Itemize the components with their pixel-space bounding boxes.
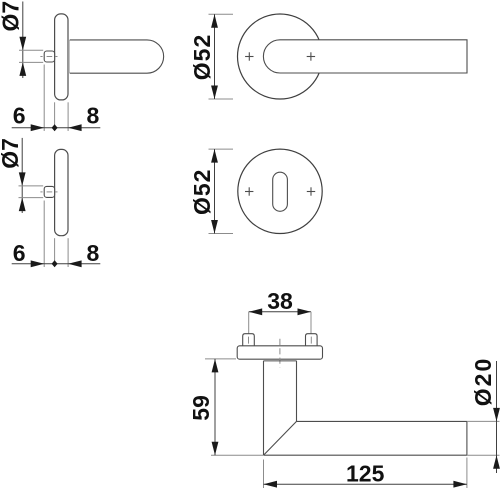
neck right edge (view 5) [296, 361, 298, 422]
svg-text:125: 125 [346, 460, 385, 486]
spindle centre line dashes (view 1) [40, 56, 57, 58]
dimension Ø20 extension lines [467, 421, 500, 455]
dimension Ø52 (view 4) arrowheads [211, 149, 218, 233]
screw cross mark right (view 4) [307, 187, 315, 195]
dimension 59 dim line [214, 359, 216, 455]
screw cross mark left (view 4) [245, 187, 253, 195]
dimension 59 extension line bottom [211, 454, 263, 456]
dimension Ø52 (view 4) label [189, 169, 215, 215]
dimension text 6 (view 1) [13, 103, 26, 129]
svg-text:59: 59 [188, 395, 214, 421]
handle grip side view (view 1) [70, 40, 164, 73]
svg-text:6: 6 [13, 103, 26, 129]
centre line through plate (view 5) [279, 339, 281, 367]
grip top edge (view 5) [297, 420, 467, 422]
dimension Ø52 (view 4) dim line [214, 149, 216, 233]
dimension 6/8 (view 1) extension lines [44, 65, 68, 132]
dimension text 8 (view 2) [87, 240, 100, 266]
dimension Ø7 (view 1) dim line [22, 2, 24, 79]
svg-text:Ø7: Ø7 [0, 1, 23, 32]
dimension Ø7 (view 2) label [0, 138, 23, 169]
svg-text:Ø7: Ø7 [0, 138, 23, 169]
dimension Ø52 (view 4) extension lines [209, 149, 234, 233]
spindle square (view 1) [44, 51, 54, 62]
dimension Ø20 dim line [496, 361, 498, 473]
dimension 38 dim line [249, 311, 311, 313]
svg-text:8: 8 [87, 103, 100, 129]
screw boss right (view 5) [306, 334, 318, 346]
dimension Ø20 arrowheads [493, 408, 500, 469]
dimension Ø52 (view 3) dim line [214, 14, 216, 99]
rose side view (view 2) [55, 149, 68, 235]
rose plate edge view (view 5) [237, 346, 322, 359]
dimension text 125 [346, 460, 385, 486]
dimension 59 arrowheads [212, 359, 219, 455]
dimension 125 dim line [264, 483, 467, 485]
dimension 38 arrowheads [249, 308, 311, 315]
dimension 38 extension lines [249, 312, 311, 334]
dimension Ø7 (view 2) dim line [21, 138, 23, 213]
spindle centre line dashes (view 2) [40, 191, 57, 193]
dimension text 8 (view 1) [87, 103, 100, 129]
handle neck shading (view 1) [68, 40, 70, 73]
dimension Ø7 (view 2) arrowheads [19, 172, 26, 211]
svg-text:6: 6 [13, 240, 26, 266]
dimension 6/8 (view 1) dim line [12, 127, 101, 129]
neck lip line (view 5) [263, 360, 296, 362]
dimension Ø7 (view 1) label [0, 1, 23, 32]
screw boss left (view 5) [243, 334, 255, 346]
dimension Ø7 (view 1) arrowheads [19, 37, 26, 76]
dimension Ø52 (view 3) label [189, 34, 215, 80]
dimension 125 extension lines [264, 458, 467, 489]
svg-text:Ø20: Ø20 [470, 357, 496, 406]
screw cross mark right (view 3) [307, 52, 315, 60]
neck left edge (view 5) [263, 361, 265, 455]
dimension 6/8 (view 2) extension lines [44, 201, 68, 268]
rose side view (view 1) [55, 14, 68, 100]
dimension text 6 (view 2) [13, 240, 26, 266]
dimension Ø52 (view 3) extension lines [209, 14, 234, 99]
svg-text:Ø52: Ø52 [189, 34, 215, 80]
dimension Ø52 (view 3) arrowheads [211, 14, 218, 99]
dimension 6/8 (view 2) dim line [12, 263, 101, 265]
keyhole slot (view 4) [273, 172, 288, 211]
dimension text 59 (rotated) [188, 395, 214, 421]
dimension Ø7 (view 2) extension lines [19, 186, 44, 198]
svg-text:38: 38 [267, 288, 293, 314]
dimension 125 arrowheads [264, 481, 467, 488]
dimension 59 extension line top [205, 358, 236, 360]
dimension 6/8 (view 2) arrowheads and diamond [31, 260, 82, 267]
spindle square (view 2) [44, 186, 54, 197]
dimension text 38 (view 5) [267, 288, 293, 314]
rose circle (view 3) [238, 14, 323, 99]
dimension Ø20 label (rotated) [470, 357, 496, 406]
screw boss right centre dash [310, 337, 312, 344]
svg-text:8: 8 [87, 240, 100, 266]
screw cross mark left (view 3) [245, 52, 253, 60]
handle bar front view (view 3) [263, 40, 467, 73]
screw boss left centre dash [248, 337, 250, 344]
grip bend diagonal (view 5) [264, 421, 297, 455]
svg-text:Ø52: Ø52 [189, 169, 215, 215]
escutcheon circle (view 4) [238, 149, 322, 233]
grip bottom edge (view 5) [264, 454, 467, 456]
dimension Ø7 (view 1) extension lines [19, 50, 43, 62]
dimension 6/8 (view 1) arrowheads and diamond [31, 124, 82, 131]
grip right end (view 5) [466, 421, 468, 455]
